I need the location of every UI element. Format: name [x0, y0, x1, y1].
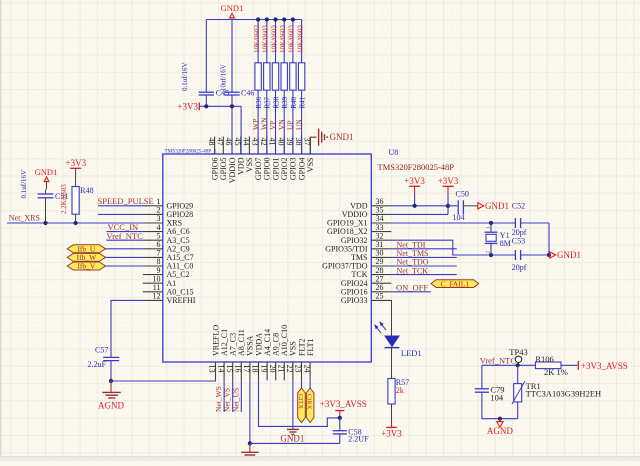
pin 33 GPIO18_X2: [327, 223, 391, 236]
pin 16 A8_C11: [234, 329, 247, 380]
svg-text:GND1: GND1: [221, 3, 244, 13]
junction top rail at R38: [273, 17, 277, 21]
svg-text:23: 23: [294, 365, 303, 373]
svg-text:VN: VN: [277, 119, 286, 130]
svg-text:GND1: GND1: [557, 250, 581, 260]
resistor R41 10K/0603: [296, 20, 306, 154]
pin 42 GPIO0: [259, 137, 272, 181]
wire Ifb_W to pin 7: [106, 256, 143, 258]
wire Net_XRS pin3: [7, 222, 143, 224]
pin 10 A1: [143, 274, 176, 287]
wire crystal right rail: [548, 223, 550, 255]
junction Net_XRS at C51: [43, 221, 47, 225]
resistor R57 2k: [388, 378, 409, 404]
pin 25 GPIO33: [341, 292, 391, 305]
resistor R39 10K/0603: [279, 20, 289, 154]
pin 43 GPIO7: [250, 137, 263, 181]
net port flag C_FAIL1: [431, 279, 479, 288]
wire pin34 GPIO19_X1 to crystal top: [391, 222, 549, 224]
wire R57 to +3V3: [391, 404, 393, 422]
power ground GND1 (bottom): [280, 429, 304, 443]
svg-text:R41: R41: [299, 96, 307, 108]
junction top rail at R36: [256, 17, 260, 21]
wire pin5 Vref_NTC: [106, 239, 142, 241]
svg-text:R39: R39: [281, 96, 289, 108]
svg-text:+3V3: +3V3: [66, 158, 87, 168]
svg-text:SPEED_PULSE: SPEED_PULSE: [98, 196, 154, 206]
svg-text:GPIO7: GPIO7: [254, 158, 263, 181]
svg-text:12: 12: [153, 292, 161, 301]
crystal Y1 8M: [485, 223, 511, 255]
svg-text:25: 25: [376, 292, 384, 301]
ground AGND (left): [98, 381, 124, 411]
svg-text:C52: C52: [512, 201, 525, 210]
capacitor C45 0.1uf/16V: [181, 20, 229, 107]
pin 37 VSS: [303, 137, 316, 173]
capacitor C52 20pf: [512, 201, 527, 237]
svg-text:14: 14: [216, 365, 225, 373]
capacitor C57 2.2uF: [88, 345, 120, 381]
svg-text:U8: U8: [389, 148, 399, 157]
junction VDD wire at +3V3 stem: [413, 204, 417, 208]
wire Ifb_U to pin 6: [106, 248, 143, 250]
pin 21 A10_C10: [277, 325, 290, 380]
pin 36 VDD: [350, 197, 391, 210]
power port GND1 (top): [221, 3, 244, 18]
LED LED1: [374, 300, 421, 358]
wire pin28 Net_TCK: [391, 274, 457, 276]
pin 15 A7_C3: [225, 333, 238, 380]
ground earth at pin17: [241, 443, 258, 457]
svg-text:0.1uf/16V: 0.1uf/16V: [181, 62, 189, 91]
pin 40 GPIO2: [276, 137, 289, 181]
resistor R40 10K/0603: [288, 20, 298, 154]
pin 39 GPIO3: [285, 137, 298, 181]
power port +3V3 (top left of chip): [177, 101, 199, 111]
svg-text:44: 44: [242, 138, 251, 146]
pin 13 VREFLO: [208, 325, 221, 381]
svg-text:45: 45: [233, 138, 242, 146]
junction at C50 left: [446, 204, 450, 208]
test point TP43: [509, 347, 527, 366]
pin 8 A11_C0: [143, 257, 194, 270]
svg-text:+3V3: +3V3: [404, 176, 425, 186]
pin 5 A3_C5: [143, 231, 190, 244]
svg-text:10K/0603: 10K/0603: [279, 25, 287, 54]
junction right rail bottom: [547, 253, 551, 257]
svg-text:GND1: GND1: [280, 433, 304, 443]
svg-text:Vref_NTC: Vref_NTC: [480, 356, 517, 366]
pin 4 A6_C6: [143, 223, 190, 236]
svg-text:2.2K/0603: 2.2K/0603: [60, 184, 68, 214]
thermistor TR1 TTC3A103G39H2EH: [512, 365, 601, 418]
wire pin25 horizontal: [390, 299, 392, 301]
pin 19 A4_C14: [259, 329, 272, 380]
wire Vref_NTC node: [482, 364, 536, 366]
resistor R37 10K/0603: [262, 20, 272, 154]
junction top rail at R37: [265, 17, 269, 21]
pin 45 VDD: [233, 137, 246, 175]
pin 29 GPIO37/TDO: [322, 257, 391, 270]
svg-text:GPIO2: GPIO2: [280, 158, 289, 181]
svg-text:GPIO1: GPIO1: [271, 158, 280, 181]
svg-text:Net_XRS: Net_XRS: [9, 214, 40, 223]
pin 30 TMS: [351, 249, 391, 262]
svg-text:TMS320F280025-48P: TMS320F280025-48P: [378, 162, 455, 172]
pin 46 VDDIO: [224, 137, 237, 184]
wire pin14 Net_WS: [223, 380, 225, 412]
junction top rail at R39: [282, 17, 286, 21]
svg-text:VP: VP: [268, 120, 277, 130]
svg-text:GND1: GND1: [330, 132, 354, 142]
svg-text:UP: UP: [286, 120, 295, 130]
svg-text:20: 20: [268, 365, 277, 373]
svg-text:10K/0603: 10K/0603: [253, 25, 261, 54]
svg-text:VREFHI: VREFHI: [167, 296, 196, 305]
svg-text:13: 13: [208, 365, 217, 373]
wire pin13 VREFLO to AGND node: [111, 379, 216, 382]
svg-text:17: 17: [242, 365, 251, 373]
pin 18 VDDA: [251, 333, 264, 381]
pin 47 GPIO5: [216, 137, 229, 181]
pin 38 GPIO4: [294, 137, 307, 181]
junction on +3V3 wire at C46/pin46: [230, 104, 234, 108]
svg-text:C_FAIL1: C_FAIL1: [440, 279, 469, 288]
wire pin15 Net_VS: [232, 380, 234, 412]
wire pin29 Net_TDO: [391, 265, 457, 267]
power port GND1 above C51: [35, 167, 58, 190]
svg-text:LED1: LED1: [401, 348, 422, 358]
pin 12 VREFHI: [143, 292, 196, 305]
wire pin4 VCC_IN: [106, 231, 142, 233]
capacitor C46 10uf/16V: [220, 20, 255, 98]
pin 20 A9_C8: [268, 333, 281, 380]
svg-text:R38: R38: [272, 96, 280, 108]
svg-text:FLT1: FLT1: [306, 339, 315, 357]
svg-text:C50: C50: [456, 189, 469, 198]
wire pin35 VDDIO up to +3V3 net: [391, 194, 448, 214]
svg-text:R106: R106: [535, 354, 553, 364]
svg-text:WN: WN: [260, 117, 269, 130]
pin 28 TCK: [352, 266, 392, 279]
svg-text:ON_OFF: ON_OFF: [396, 282, 428, 292]
junction AGND node: [498, 417, 502, 421]
svg-text:24: 24: [302, 365, 311, 373]
svg-text:2k: 2k: [396, 386, 404, 395]
svg-text:VSS: VSS: [306, 158, 315, 173]
svg-text:21: 21: [277, 365, 286, 373]
svg-text:CITX: CITX: [297, 394, 304, 409]
resistor R48 2.2K/0603: [60, 184, 94, 223]
resistor R106 2K 1%: [535, 354, 577, 377]
pin 1 GPIO29: [143, 197, 193, 210]
power port +3V3_AVSS (right): [578, 361, 628, 371]
svg-text:Ifb_V: Ifb_V: [77, 262, 95, 271]
microcontroller U8 TMS320F280025-48P body: [163, 154, 371, 362]
power port +3V3 at pin35 VDDIO: [438, 176, 459, 194]
pin 22 VSS: [285, 341, 298, 380]
wire +3V3 to VDD/VDDIO pins: [199, 95, 241, 154]
pin 27 GPIO24: [341, 274, 391, 287]
svg-text:C53: C53: [512, 236, 525, 245]
svg-text:R36: R36: [255, 96, 263, 108]
power port GND1 arrow at C50: [478, 201, 509, 211]
pin 41 GPIO1: [268, 137, 281, 181]
svg-text:+3V3: +3V3: [177, 101, 198, 111]
svg-text:Net_US: Net_US: [231, 388, 240, 412]
net port flag Ifb_V: [67, 262, 105, 271]
svg-text:Net_TCK: Net_TCK: [397, 266, 429, 275]
wire pin12 VREFHI to C57: [111, 300, 143, 357]
wire pin23 to flag CITX: [301, 380, 303, 388]
svg-text:10K/0603: 10K/0603: [288, 25, 296, 54]
svg-text:10K/0603: 10K/0603: [296, 25, 304, 54]
pin 2 GPIO28: [143, 206, 193, 219]
pin 17 VSSA: [242, 335, 255, 380]
capacitor C50 104: [448, 189, 478, 222]
svg-text:WP: WP: [251, 119, 260, 130]
svg-text:15: 15: [225, 365, 234, 373]
svg-text:8M: 8M: [500, 239, 511, 248]
svg-text:+3V3: +3V3: [381, 429, 402, 439]
svg-text:TMS320F280025-48P_1: TMS320F280025-48P_1: [165, 148, 217, 154]
wire GND1 top rail: [206, 19, 301, 21]
svg-text:19: 19: [259, 365, 268, 373]
junction top rail at R40: [291, 17, 295, 21]
junction Net_XRS at R48: [74, 221, 78, 225]
wire pin18 VDDA to +3V3_AVSS node: [259, 380, 340, 426]
capacitor C51 0.1uf/16V: [20, 170, 69, 223]
svg-text:Vref_NTC: Vref_NTC: [107, 231, 144, 241]
power port +3V3_AVSS (bottom): [320, 399, 367, 418]
svg-text:GPIO33: GPIO33: [341, 296, 368, 305]
power port GND1 arrow at crystal rail: [550, 250, 581, 260]
junction VSSA/C58 return: [248, 441, 252, 445]
svg-text:+3V3: +3V3: [438, 176, 459, 186]
svg-text:+3V3_AVSS: +3V3_AVSS: [320, 399, 367, 409]
wire pin25 GPIO33 to LED1: [390, 300, 392, 334]
pin 7 A15_C7: [143, 249, 194, 262]
svg-text:16: 16: [234, 365, 243, 373]
pin 11 A0_C15: [143, 283, 194, 296]
junction crystal bottom: [489, 253, 493, 257]
pin 23 FLT2: [294, 339, 307, 381]
svg-text:VDD: VDD: [237, 157, 246, 175]
svg-text:TTC3A103G39H2EH: TTC3A103G39H2EH: [526, 388, 602, 398]
svg-text:C46: C46: [241, 88, 254, 97]
svg-text:GPIO4: GPIO4: [297, 158, 306, 181]
wire pin31 Net_TDI: [391, 248, 457, 250]
pin 6 A2_C9: [143, 240, 190, 253]
svg-text:0.1uf/16V: 0.1uf/16V: [20, 170, 28, 199]
pin 44 VSS: [242, 137, 255, 173]
junction crystal top: [489, 221, 493, 225]
svg-text:R40: R40: [290, 96, 298, 108]
net port flag Ifb_W: [67, 253, 105, 262]
svg-text:AGND: AGND: [487, 426, 513, 436]
pin 48 GPIO6: [207, 137, 220, 181]
ground AGND (right): [487, 419, 513, 436]
svg-text:VSS: VSS: [245, 158, 254, 173]
svg-text:+3V3_AVSS: +3V3_AVSS: [581, 361, 628, 371]
junction on +3V3 wire at C45: [204, 104, 208, 108]
wire pin2: [98, 213, 143, 215]
svg-text:VDDIO: VDDIO: [228, 157, 237, 183]
wire pin30 Net_TMS: [391, 256, 457, 258]
net port flag CITX: [297, 388, 305, 423]
svg-text:2.2uF: 2.2uF: [88, 360, 107, 369]
wire Ifb_V to pin 8: [106, 265, 143, 267]
svg-text:18: 18: [251, 365, 260, 373]
net port flag CIRX: [306, 388, 314, 423]
power port +3V3 at pin36 VDD: [404, 176, 425, 194]
svg-text:22: 22: [285, 365, 294, 373]
resistor R36 10K/0603: [253, 20, 263, 154]
junction C57/VREFLO/AGND: [109, 379, 113, 383]
pin 3 XRS: [143, 214, 182, 227]
pin 9 A5_C2: [143, 266, 190, 279]
svg-text:10K/0603: 10K/0603: [270, 25, 278, 54]
capacitor C53 20pf: [512, 236, 527, 272]
pin 35 VDDIO: [342, 206, 392, 219]
svg-text:C57: C57: [95, 345, 108, 354]
svg-text:48: 48: [207, 138, 216, 146]
svg-text:104: 104: [453, 213, 465, 222]
wire pin32 to crystal bottom: [391, 240, 549, 255]
svg-text:10K/0603: 10K/0603: [262, 25, 270, 54]
svg-text:R48: R48: [80, 186, 93, 195]
wire C79/TR1 bottom: [482, 418, 518, 420]
wire C58 return to VSSA: [250, 442, 340, 444]
power port +3V3 above R48: [66, 158, 87, 187]
svg-text:R37: R37: [264, 96, 272, 108]
window bottom bar: [0, 457, 640, 461]
svg-text:GPIO5: GPIO5: [219, 158, 228, 181]
pin 26 GPIO16: [341, 283, 391, 296]
svg-text:GND1: GND1: [35, 167, 58, 177]
capacitor C79 104: [475, 365, 505, 418]
wire pin24 to flag CIRX: [309, 380, 311, 388]
wire pin17 VSSA down: [249, 380, 251, 443]
pin 34 GPIO19_X1: [327, 214, 391, 227]
wire LED1 to R57: [391, 348, 393, 379]
svg-text:GND1: GND1: [485, 201, 509, 211]
svg-text:CIRX: CIRX: [306, 394, 313, 410]
wire pin26 GPIO16 ON_OFF: [391, 291, 431, 293]
wire pin22 VSS down to GND1: [292, 380, 294, 429]
svg-text:2.2UF: 2.2UF: [348, 434, 369, 443]
pin 24 FLT1: [302, 339, 315, 381]
svg-text:20pf: 20pf: [512, 263, 527, 272]
power port +3V3 below R57: [381, 422, 402, 439]
svg-text:GPIO6: GPIO6: [210, 158, 219, 181]
pin 32 GPIO32: [341, 231, 391, 244]
power ground GND1 at pin 37 (VSS): [310, 129, 353, 154]
svg-text:104: 104: [490, 392, 504, 402]
pin 14 A12_C1: [216, 329, 229, 380]
junction +3V3_AVSS node: [338, 416, 342, 420]
svg-text:GPIO0: GPIO0: [263, 158, 272, 181]
junction Vref_NTC at TR1: [516, 363, 520, 367]
resistor R38 10K/0603: [270, 20, 280, 154]
wire pin1 SPEED_PULSE: [98, 205, 143, 207]
svg-text:GPIO3: GPIO3: [289, 158, 298, 181]
pin 31 GPIO35/TDI: [325, 240, 391, 253]
net port flag Ifb_U: [67, 245, 105, 254]
svg-text:10uf/16V: 10uf/16V: [220, 64, 228, 91]
wire pin16 Net_US: [240, 380, 242, 412]
wire pin36 VDD to +3V3: [391, 194, 448, 206]
capacitor C58 2.2UF: [333, 418, 369, 444]
svg-text:AGND: AGND: [98, 401, 124, 411]
svg-text:2K 1%: 2K 1%: [544, 367, 568, 377]
svg-text:47: 47: [216, 138, 225, 146]
svg-text:UN: UN: [294, 119, 303, 130]
